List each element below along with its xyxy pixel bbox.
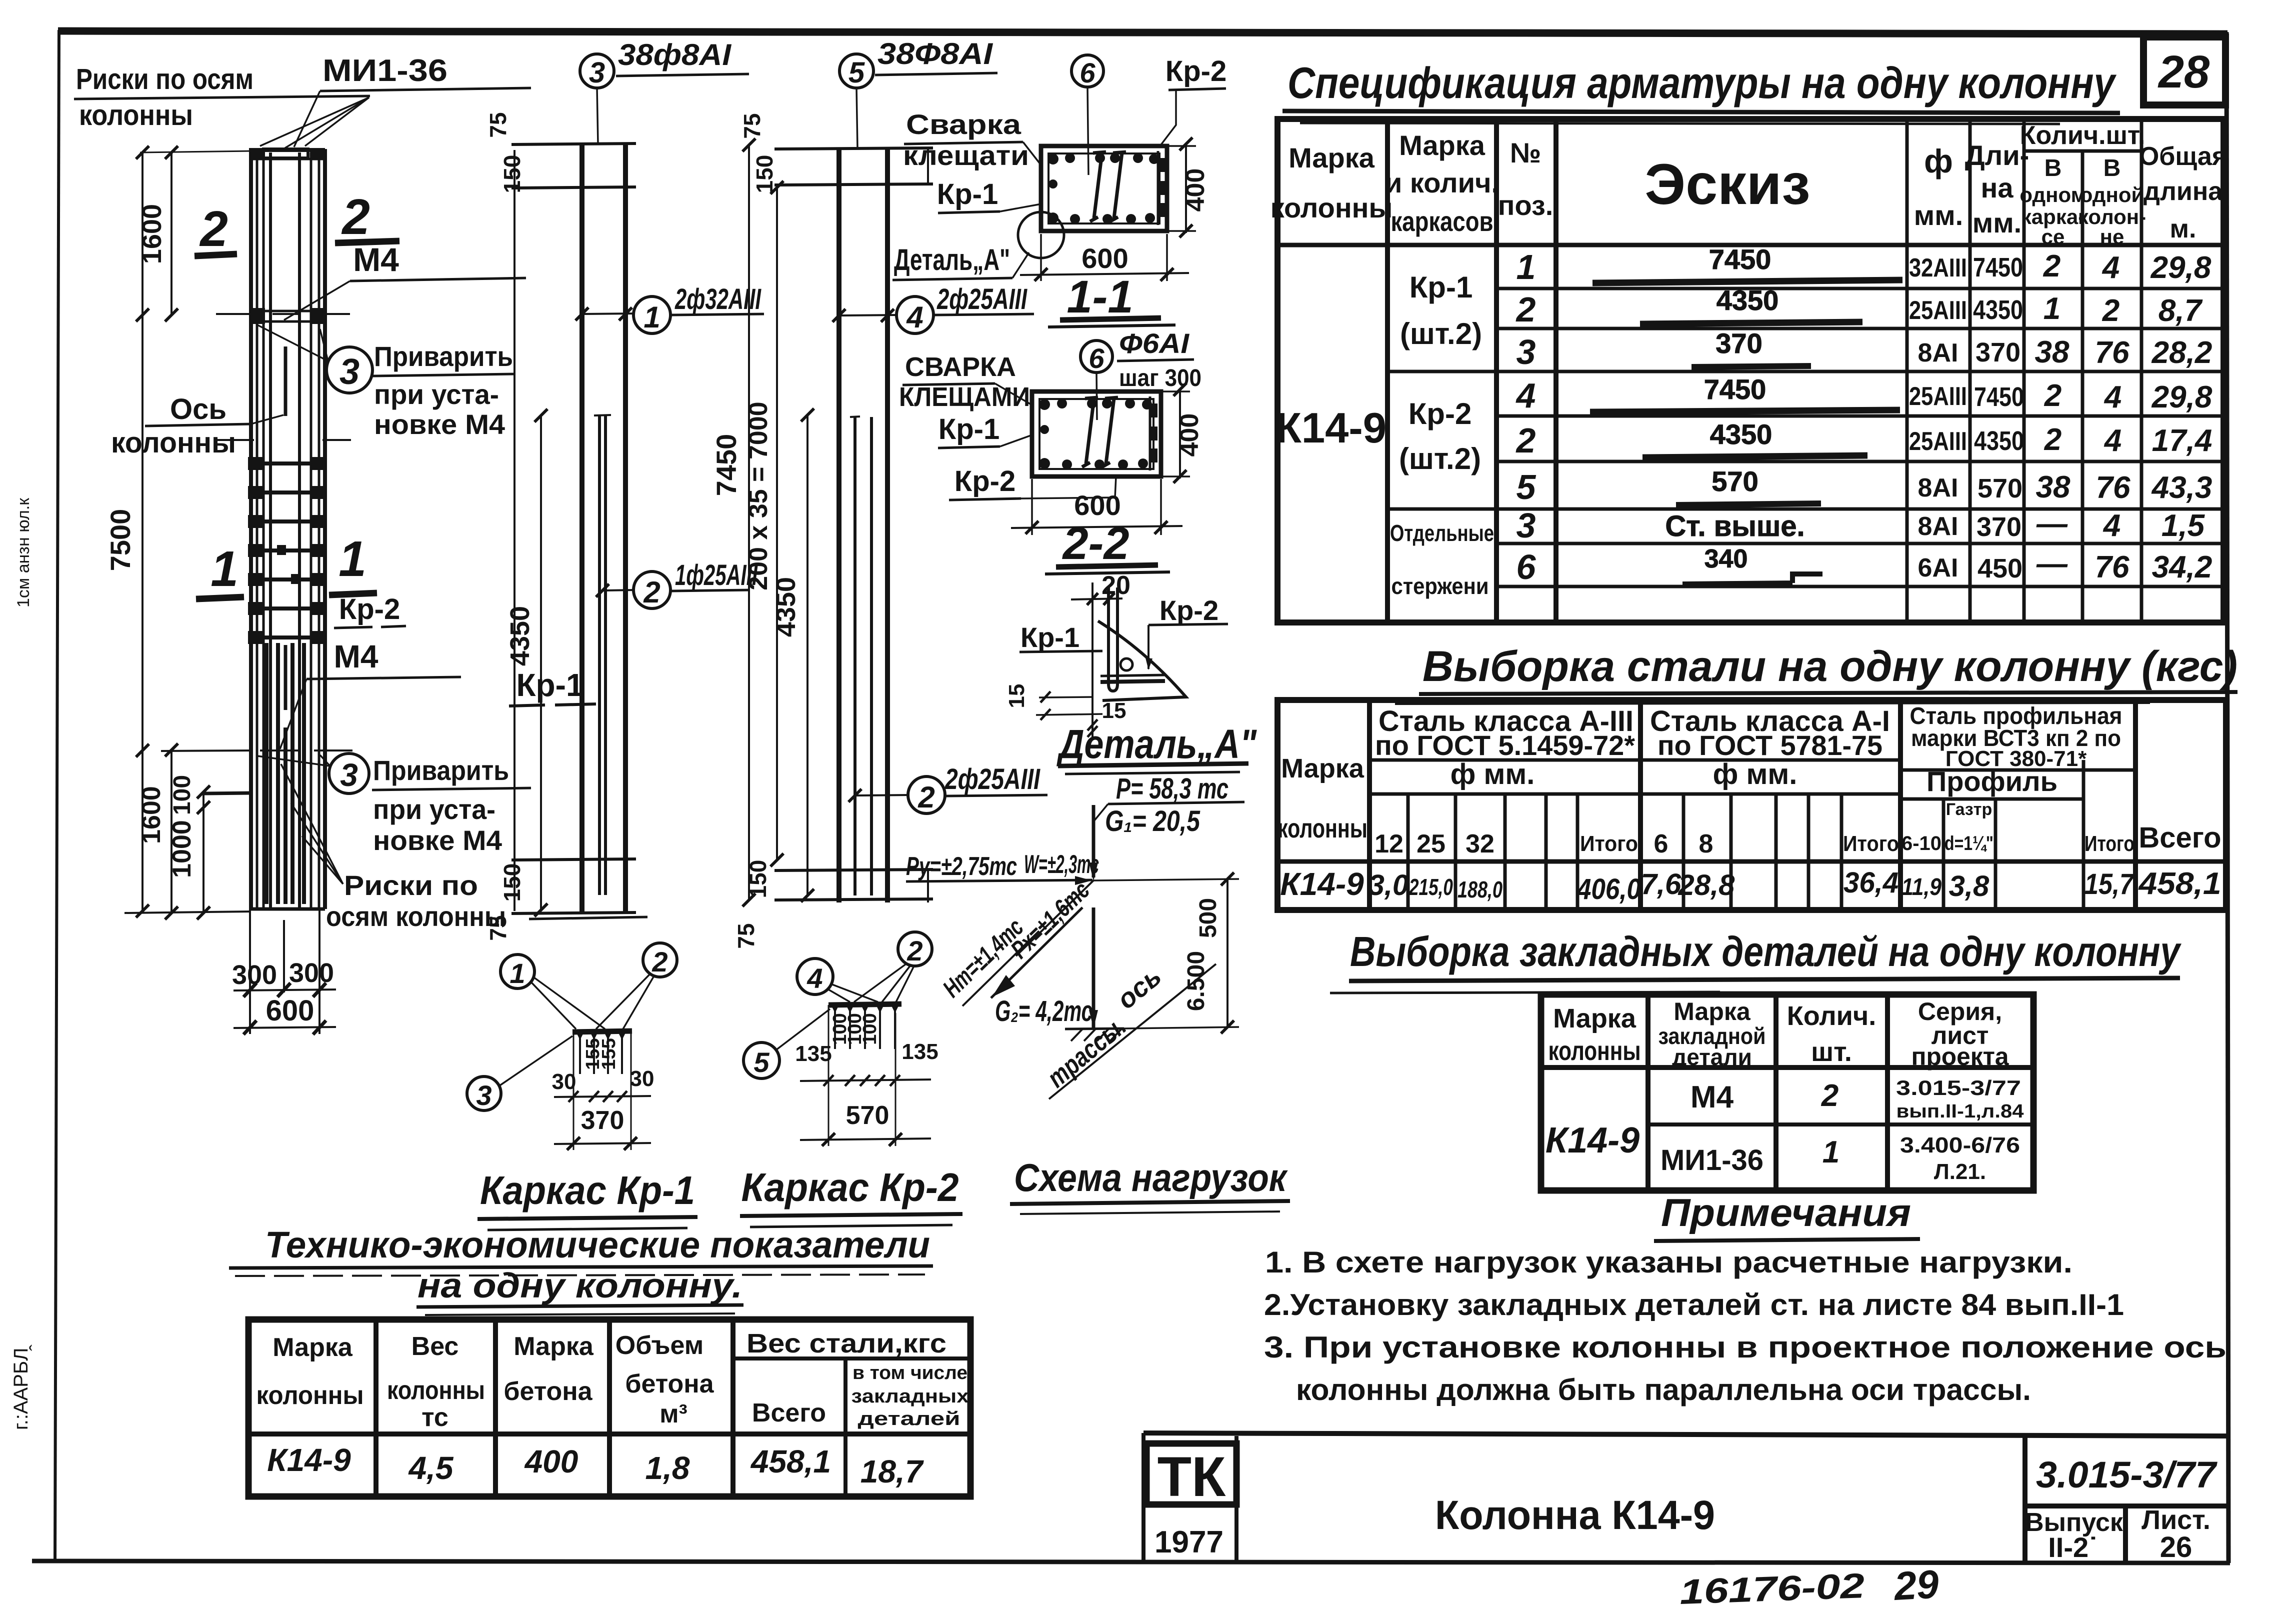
callout circle 3 (lower): [329, 753, 369, 793]
svg-text:36,4: 36,4: [1843, 866, 1898, 899]
svg-text:6АI: 6АI: [1918, 553, 1958, 582]
Kr-2 curved gusset: [1098, 621, 1186, 700]
svg-text:8АI: 8АI: [1918, 338, 1958, 367]
svg-text:стержени: стержени: [1391, 573, 1489, 599]
svg-text:3: 3: [1516, 506, 1536, 545]
svg-text:29,8: 29,8: [2151, 380, 2212, 414]
svg-text:колонны должна быть параллельн: колонны должна быть параллельна оси трас…: [1296, 1373, 2031, 1406]
svg-text:G₁= 20,5: G₁= 20,5: [1105, 805, 1200, 837]
dim 400 right of section 1-1: [1167, 145, 1196, 147]
svg-text:8АI: 8АI: [1918, 473, 1958, 502]
svg-text:Марка: Марка: [1281, 753, 1364, 783]
hanging bars: [580, 1032, 622, 1074]
svg-text:406,0: 406,0: [1576, 873, 1641, 905]
vertical load arrow (upper): [1092, 805, 1095, 877]
callout circle 6: [1080, 340, 1112, 372]
svg-text:ось: ось: [1111, 961, 1167, 1015]
svg-text:колонны: колонны: [111, 426, 236, 459]
svg-text:7,6: 7,6: [1641, 868, 1681, 900]
svg-text:Эскиз: Эскиз: [1644, 152, 1810, 216]
svg-text:2: 2: [2044, 378, 2061, 413]
left dimension line 7500: [141, 152, 143, 911]
steel table data row: [1280, 866, 2221, 905]
svg-text:м.: м.: [2170, 214, 2196, 243]
svg-text:Всего: Всего: [2138, 821, 2221, 854]
spec data: qty per cage: [2035, 249, 2070, 581]
svg-text:Pу=±2,75тс: Pу=±2,75тс: [906, 852, 1017, 881]
svg-text:—: —: [2036, 546, 2068, 581]
svg-text:155: 155: [598, 1038, 619, 1069]
svg-text:Отдельные: Отдельные: [1390, 520, 1494, 546]
svg-text:2: 2: [1821, 1078, 1838, 1113]
callout circle 2: [643, 943, 677, 977]
svg-text:3,8: 3,8: [1949, 870, 1989, 902]
cage Kr-2 elevation outline: [774, 148, 933, 902]
svg-text:Кр-2: Кр-2: [1408, 397, 1472, 430]
svg-text:300: 300: [232, 960, 277, 990]
svg-text:32: 32: [1465, 829, 1494, 858]
svg-text:Кр-1: Кр-1: [937, 178, 998, 210]
svg-text:8АI: 8АI: [1918, 512, 1958, 541]
svg-text:7450: 7450: [1973, 252, 2023, 282]
svg-text:75: 75: [733, 923, 759, 948]
svg-text:М4: М4: [1690, 1080, 1734, 1114]
svg-text:600: 600: [1074, 489, 1120, 521]
steel table header texts: [1277, 703, 2221, 858]
svg-text:М4: М4: [334, 638, 378, 674]
callout circle 4 with level line: [839, 315, 896, 315]
svg-text:ф: ф: [1924, 142, 1953, 179]
svg-text:188,0: 188,0: [1457, 876, 1502, 902]
svg-text:бетона: бетона: [625, 1369, 714, 1398]
svg-text:8: 8: [1699, 829, 1713, 858]
svg-text:1: 1: [1516, 247, 1536, 286]
svg-text:370: 370: [1976, 512, 2021, 542]
svg-text:4350: 4350: [1716, 284, 1779, 316]
svg-text:150: 150: [745, 860, 771, 898]
svg-text:6: 6: [1088, 342, 1104, 374]
svg-text:вып.II-1,л.84: вып.II-1,л.84: [1896, 1101, 2024, 1122]
cross ties: [1090, 152, 1106, 221]
embed plate on right: [1149, 396, 1151, 470]
svg-text:2: 2: [1515, 290, 1536, 329]
callout circle 6: [1071, 55, 1103, 87]
svg-text:Каркас Кр-2: Каркас Кр-2: [741, 1165, 959, 1209]
svg-text:400: 400: [1181, 168, 1210, 212]
svg-text:при уста-: при уста-: [373, 793, 495, 825]
svg-text:4: 4: [2103, 423, 2121, 458]
svg-text:4350: 4350: [771, 577, 801, 637]
svg-text:не: не: [2100, 225, 2124, 248]
svg-text:1: 1: [338, 531, 366, 587]
svg-text:570: 570: [846, 1101, 889, 1130]
svg-text:6.500: 6.500: [1183, 951, 1209, 1011]
svg-text:300: 300: [289, 958, 334, 988]
callout circle 2 with level line: [855, 795, 908, 795]
bar pos.2 (4350): [598, 415, 601, 895]
svg-text:К14-9: К14-9: [1545, 1120, 1639, 1160]
chain dim line: [800, 1079, 931, 1081]
svg-text:Деталь„А": Деталь„А": [894, 243, 1010, 276]
section 1-1 cross-section: [1041, 146, 1167, 231]
svg-text:450: 450: [1977, 553, 2022, 583]
svg-text:2ф25АIII: 2ф25АIII: [936, 283, 1027, 315]
svg-text:Марка: Марка: [1673, 997, 1751, 1025]
svg-text:2: 2: [906, 935, 922, 966]
svg-text:75: 75: [485, 112, 511, 137]
svg-text:30: 30: [630, 1066, 654, 1091]
callout circle 1: [500, 954, 534, 988]
svg-text:одной: одной: [2080, 183, 2144, 206]
svg-text:1000: 1000: [167, 820, 196, 878]
spec data: total length: [2150, 250, 2212, 584]
section 2-2 cross-section: [1032, 391, 1161, 476]
svg-text:76: 76: [2096, 470, 2130, 505]
svg-text:Кр-2: Кр-2: [1159, 594, 1218, 626]
svg-text:каркасов: каркасов: [1391, 205, 1493, 237]
svg-text:и колич.: и колич.: [1385, 167, 1499, 198]
spec pos numbers: [1515, 247, 1536, 586]
svg-text:76: 76: [2095, 550, 2129, 584]
callout circle 5 above col3: [839, 54, 873, 88]
svg-text:3,0: 3,0: [1368, 869, 1409, 901]
svg-text:Приварить: Приварить: [373, 754, 509, 786]
svg-text:4: 4: [1515, 376, 1536, 415]
svg-text:закладных: закладных: [851, 1386, 969, 1407]
embed table grid: [1541, 994, 2033, 1190]
svg-text:600: 600: [1081, 242, 1128, 274]
spec sketch bars: [1590, 243, 1902, 584]
svg-text:длина: длина: [2143, 177, 2223, 206]
diagonal load arrow Hт/Px: [991, 907, 1082, 998]
svg-text:Марка: Марка: [1288, 142, 1375, 173]
svg-text:колонны: колонны: [1270, 192, 1393, 223]
bottom-left dims 1600/100/1000: [170, 750, 172, 914]
svg-text:Всего: Всего: [752, 1398, 826, 1427]
svg-text:7450: 7450: [1704, 373, 1766, 405]
svg-text:75: 75: [739, 113, 765, 138]
svg-text:135: 135: [795, 1041, 831, 1066]
svg-text:Ф6АI: Ф6АI: [1119, 327, 1190, 359]
svg-text:6: 6: [1654, 829, 1668, 858]
svg-text:м³: м³: [659, 1399, 687, 1428]
svg-text:3.400-6/76: 3.400-6/76: [1900, 1133, 2020, 1157]
svg-text:Каркас Кр-1: Каркас Кр-1: [480, 1168, 695, 1212]
svg-text:1см анзн юл.к: 1см анзн юл.к: [14, 497, 33, 607]
dimension 600: [233, 1027, 336, 1028]
dim line 200x35=7000: [776, 187, 778, 860]
svg-text:18,7: 18,7: [860, 1453, 924, 1489]
svg-text:600: 600: [266, 994, 314, 1027]
svg-text:Деталь„А": Деталь„А": [1056, 721, 1257, 767]
svg-text:колонны: колонны: [79, 99, 193, 131]
svg-text:2: 2: [2043, 249, 2060, 283]
svg-text:Кр-2: Кр-2: [1165, 55, 1226, 87]
svg-text:Итого: Итого: [1843, 831, 1899, 856]
svg-text:Риски по: Риски по: [344, 869, 478, 901]
svg-text:Выборка закладных деталей на о: Выборка закладных деталей на одну колонн…: [1350, 928, 2182, 975]
embed table texts: [1545, 997, 2024, 1184]
svg-text:Кр-1: Кр-1: [516, 667, 583, 703]
svg-text:(шт.2): (шт.2): [1400, 317, 1482, 350]
svg-text:Колич.: Колич.: [1787, 1001, 1876, 1031]
dimension 300/300: [233, 989, 336, 990]
svg-text:Л.21.: Л.21.: [1934, 1159, 1986, 1184]
svg-text:7500: 7500: [104, 509, 136, 571]
svg-text:1: 1: [509, 957, 525, 989]
main bars pos.4: [836, 148, 841, 902]
cage Kr-1 elevation outline: [511, 143, 636, 913]
svg-text:2-2: 2-2: [1062, 518, 1129, 569]
svg-text:3: 3: [1516, 332, 1536, 371]
embed plate on right: [1157, 151, 1159, 225]
svg-text:3: 3: [589, 56, 605, 89]
svg-text:3.015-3/77: 3.015-3/77: [2036, 1454, 2218, 1495]
svg-text:43,3: 43,3: [2151, 470, 2212, 505]
svg-text:—: —: [2036, 506, 2068, 541]
rebar dots: [1047, 153, 1159, 224]
svg-text:2ф25АIII: 2ф25АIII: [944, 763, 1040, 795]
svg-text:76: 76: [2095, 335, 2129, 370]
svg-text:II-2˙: II-2˙: [2048, 1531, 2098, 1563]
svg-text:4: 4: [806, 962, 822, 994]
svg-text:№: №: [1510, 137, 1541, 168]
svg-text:Схема нагрузок: Схема нагрузок: [1014, 1155, 1288, 1199]
svg-text:370: 370: [581, 1106, 624, 1135]
svg-text:3. При установке колонны в про: 3. При установке колонны в проектное пол…: [1264, 1330, 2226, 1364]
right dim 6500/500: [1093, 879, 1239, 880]
svg-text:1. В схете нагрузок указаны ра: 1. В схете нагрузок указаны расчетные на…: [1265, 1245, 2072, 1279]
vertical load line (lower): [1092, 907, 1095, 1028]
svg-text:25: 25: [1416, 829, 1445, 858]
svg-text:150: 150: [499, 155, 525, 193]
svg-text:Приварить: Приварить: [374, 340, 513, 372]
svg-text:12: 12: [1374, 829, 1403, 858]
svg-text:МИ1-36: МИ1-36: [322, 53, 447, 88]
svg-text:Марка: Марка: [272, 1333, 353, 1362]
svg-text:Объем: Объем: [615, 1331, 704, 1360]
svg-text:215,0: 215,0: [1408, 874, 1453, 900]
bottom plate: [1100, 675, 1165, 676]
svg-text:200 х 35 = 7000: 200 х 35 = 7000: [744, 401, 773, 590]
svg-text:поз.: поз.: [1498, 189, 1553, 221]
svg-text:колонны: колонны: [1548, 1036, 1641, 1066]
svg-text:38ф8АI: 38ф8АI: [618, 38, 731, 71]
hanging bars: [835, 1005, 895, 1049]
svg-text:4: 4: [906, 300, 923, 334]
svg-text:г.:ААРБЛ̭: г.:ААРБЛ̭: [10, 1344, 32, 1430]
svg-text:4350: 4350: [1973, 295, 2023, 325]
svg-text:Профиль: Профиль: [1926, 765, 2057, 797]
page number box 28: [2143, 37, 2225, 105]
spec table grid: [1277, 119, 2223, 622]
main bars pos.1: [579, 144, 584, 913]
svg-text:(шт.2): (шт.2): [1399, 442, 1481, 475]
svg-text:32АIII: 32АIII: [1909, 253, 1967, 282]
svg-text:1: 1: [643, 300, 660, 334]
svg-text:деталей: деталей: [858, 1408, 960, 1429]
svg-text:28,2: 28,2: [2151, 335, 2212, 370]
svg-text:1: 1: [210, 541, 238, 597]
svg-text:колонны: колонны: [1277, 813, 1367, 843]
dim 400 right of section 2-2: [1161, 390, 1190, 392]
column axis dash (upper): [284, 346, 287, 416]
callout circle 5: [743, 1042, 779, 1078]
svg-text:колонны: колонны: [256, 1381, 364, 1410]
svg-text:29: 29: [1892, 1561, 1940, 1608]
svg-text:17,4: 17,4: [2152, 423, 2212, 458]
svg-text:4350: 4350: [1974, 426, 2024, 456]
svg-text:W=±2,3тс: W=±2,3тс: [1024, 850, 1099, 879]
svg-text:30: 30: [552, 1069, 576, 1094]
detail A callout circle: [1018, 212, 1064, 258]
svg-text:Марка: Марка: [513, 1332, 594, 1361]
svg-text:2.Установку закладных деталей: 2.Установку закладных деталей ст. на лис…: [1264, 1288, 2124, 1321]
callout circle 3: [467, 1076, 501, 1110]
svg-text:В: В: [2103, 155, 2121, 181]
svg-text:3: 3: [476, 1079, 491, 1111]
svg-text:15: 15: [1102, 698, 1126, 723]
spec data: qty per column: [2095, 250, 2130, 584]
svg-text:колонны: колонны: [387, 1376, 485, 1405]
cross ties: [1082, 397, 1098, 467]
svg-text:6: 6: [1516, 547, 1536, 586]
svg-text:1600: 1600: [137, 204, 167, 264]
svg-text:7450: 7450: [1974, 382, 2024, 412]
svg-text:КЛЕЩАМИ: КЛЕЩАМИ: [899, 382, 1030, 412]
svg-text:Кр-1: Кр-1: [1020, 621, 1079, 653]
svg-text:Примечания: Примечания: [1661, 1190, 1911, 1234]
svg-text:Газтр: Газтр: [1946, 800, 1992, 819]
svg-text:38: 38: [2036, 470, 2070, 504]
Kr-1 bar (U-shaped): [1108, 587, 1117, 691]
svg-text:по ГОСТ 5781-75: по ГОСТ 5781-75: [1657, 729, 1882, 761]
steel table grid: [1277, 700, 2226, 910]
svg-text:ф мм.: ф мм.: [1450, 758, 1535, 790]
svg-text:370: 370: [1715, 327, 1762, 359]
svg-text:4350: 4350: [1710, 418, 1772, 450]
svg-text:Вес: Вес: [411, 1332, 459, 1361]
svg-text:Вес стали,кгс: Вес стали,кгс: [746, 1328, 946, 1358]
svg-text:ф мм.: ф мм.: [1713, 758, 1797, 790]
svg-text:3: 3: [339, 352, 359, 392]
svg-text:К14-9: К14-9: [1275, 404, 1386, 452]
svg-text:38Ф8АI: 38Ф8АI: [877, 37, 993, 70]
svg-text:Ст. выше.: Ст. выше.: [1665, 510, 1804, 542]
svg-text:В: В: [2044, 155, 2062, 181]
svg-text:1600: 1600: [137, 786, 166, 844]
svg-text:28,8: 28,8: [1678, 869, 1735, 901]
svg-text:1-1: 1-1: [1067, 271, 1133, 322]
svg-text:11,9: 11,9: [1901, 874, 1941, 900]
svg-text:4: 4: [2102, 508, 2120, 543]
callout circle 2: [898, 932, 932, 966]
svg-text:570: 570: [1977, 473, 2022, 503]
svg-text:се: се: [2041, 225, 2065, 248]
tech table grid: [248, 1319, 970, 1496]
svg-text:1,8: 1,8: [645, 1450, 690, 1486]
svg-text:15,7: 15,7: [2084, 868, 2134, 900]
svg-text:135: 135: [901, 1039, 938, 1064]
svg-text:К14-9: К14-9: [1280, 866, 1364, 902]
svg-text:25АIII: 25АIII: [1909, 382, 1967, 411]
svg-text:Кр-1: Кр-1: [938, 413, 999, 445]
left dimension 1600 (top): [170, 152, 172, 315]
chain dim line: [554, 1096, 651, 1097]
axis of route (ось трассы): [1049, 964, 1216, 1099]
svg-text:2: 2: [643, 575, 660, 609]
svg-text:4,5: 4,5: [408, 1450, 454, 1486]
svg-text:4: 4: [2103, 380, 2121, 414]
svg-text:2: 2: [917, 780, 934, 814]
svg-text:16176-02: 16176-02: [1679, 1566, 1865, 1611]
svg-text:по ГОСТ 5.1459-72*: по ГОСТ 5.1459-72*: [1375, 729, 1635, 761]
svg-text:Колич.шт.: Колич.шт.: [2020, 121, 2145, 150]
svg-text:Лист.: Лист.: [2141, 1505, 2210, 1535]
svg-text:осям колонны: осям колонны: [326, 900, 506, 932]
svg-text:клещати: клещати: [903, 139, 1029, 171]
svg-text:Итого: Итого: [1580, 831, 1638, 856]
svg-text:P= 58,3 тс: P= 58,3 тс: [1116, 772, 1228, 805]
svg-text:28: 28: [2157, 46, 2210, 97]
callout circle 3 (upper): [326, 347, 372, 393]
svg-text:Марка: Марка: [1399, 129, 1485, 161]
svg-text:3: 3: [340, 757, 358, 793]
svg-text:d=1¼": d=1¼": [1944, 832, 1993, 854]
svg-text:8,7: 8,7: [2158, 293, 2203, 328]
svg-text:15: 15: [1004, 684, 1029, 708]
svg-text:тс: тс: [421, 1403, 448, 1432]
svg-text:Марка: Марка: [1553, 1003, 1636, 1033]
svg-text:Колонна К14-9: Колонна К14-9: [1435, 1492, 1715, 1538]
svg-text:570: 570: [1711, 465, 1758, 497]
svg-text:Pх=±1,6тс: Pх=±1,6тс: [1005, 876, 1095, 964]
dim line 7450: [748, 145, 750, 900]
M4 axis dash-dot line (lower): [161, 750, 352, 751]
svg-text:25АIII: 25АIII: [1909, 296, 1967, 325]
svg-text:на: на: [1981, 172, 2014, 203]
svg-text:458,1: 458,1: [2137, 866, 2221, 901]
svg-text:400: 400: [1175, 413, 1204, 457]
svg-text:34,2: 34,2: [2152, 550, 2212, 584]
svg-text:Итого: Итого: [2084, 831, 2134, 856]
svg-text:2: 2: [341, 189, 370, 245]
dim 4350 (left of col2): [540, 415, 542, 910]
svg-text:5: 5: [848, 56, 865, 89]
svg-text:150: 150: [751, 155, 777, 193]
svg-text:340: 340: [1704, 544, 1748, 573]
svg-text:Общая: Общая: [2139, 142, 2227, 171]
svg-text:Ось: Ось: [170, 393, 226, 425]
svg-text:2: 2: [2044, 422, 2061, 457]
cage Kr-2 plan bar: [828, 1004, 901, 1005]
svg-text:2: 2: [2102, 293, 2119, 328]
svg-text:Выборка стали на одну колонну: Выборка стали на одну колонну (кгс): [1422, 642, 2237, 690]
svg-text:7450: 7450: [710, 434, 742, 496]
svg-text:1,5: 1,5: [2161, 508, 2205, 543]
stirrup zone with ties: [249, 463, 327, 637]
svg-text:6: 6: [1079, 57, 1095, 88]
svg-text:новке М4: новке М4: [373, 824, 502, 856]
svg-text:G₂= 4,2тс: G₂= 4,2тс: [995, 995, 1092, 1027]
callout circle 3 above col2: [580, 54, 614, 88]
svg-text:1977: 1977: [1154, 1525, 1223, 1559]
svg-text:бетона: бетона: [503, 1377, 592, 1406]
callout circle 1 with level line: [582, 313, 634, 314]
svg-text:38: 38: [2035, 335, 2069, 369]
svg-text:29,8: 29,8: [2150, 250, 2211, 285]
svg-text:Спецификация арматуры на одну: Спецификация арматуры на одну колонну: [1287, 58, 2117, 107]
